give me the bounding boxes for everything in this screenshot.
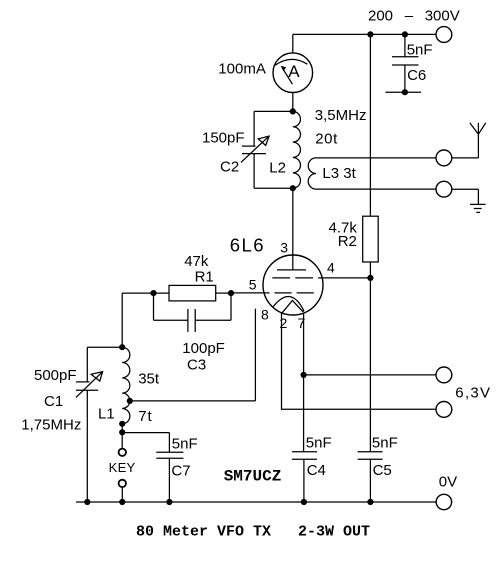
svg-text:C5: C5 [373, 462, 392, 479]
wire pin 8 [254, 309, 256, 401]
terminal 0V [436, 494, 451, 509]
tube 6L6 U1 [263, 255, 323, 315]
node L1 tap [127, 398, 133, 404]
wire R2 bottom [369, 262, 371, 452]
node L1 top [119, 344, 125, 350]
svg-text:A: A [288, 62, 300, 81]
wire L1 tap to pin 8 [130, 400, 256, 402]
svg-text:35t: 35t [138, 371, 160, 388]
resistor R1 [169, 285, 216, 301]
svg-text:7t: 7t [138, 408, 153, 425]
svg-text:6,3V: 6,3V [455, 385, 491, 402]
svg-text:R1: R1 [195, 269, 214, 286]
svg-text:5nF: 5nF [172, 435, 198, 452]
wire junction to C7 [122, 432, 169, 434]
inductor L3 [308, 158, 436, 189]
svg-text:C4: C4 [307, 462, 326, 479]
antenna [452, 123, 486, 158]
key terminal upper [119, 449, 126, 456]
wire C1 top to L1 top [87, 346, 122, 348]
wire pin 5 to R1 [231, 292, 270, 294]
wire pin 4 [318, 277, 370, 279]
svg-text:500pF: 500pF [34, 367, 77, 384]
wire L1 bottom to key junction [121, 424, 123, 449]
capacitor C3 [154, 293, 232, 332]
svg-text:100pF: 100pF [182, 340, 225, 357]
svg-text:C1: C1 [44, 393, 63, 410]
svg-text:5nF: 5nF [306, 435, 332, 452]
wire C2 bottom to L2 bottom [254, 187, 293, 189]
meter M 100mA [273, 34, 313, 111]
wire C2 branch lower [253, 154, 255, 189]
inductor L1 [122, 347, 130, 424]
node C7 junction [119, 429, 125, 435]
svg-text:200 – 300V: 200 – 300V [368, 8, 460, 25]
svg-text:5nF: 5nF [407, 42, 433, 59]
capacitor C5 [358, 452, 383, 502]
node pin7 6.3V [301, 372, 307, 378]
node supply-R2 [367, 31, 373, 37]
capacitor C6 [385, 34, 421, 95]
wire C2 branch upper [253, 111, 255, 146]
capacitor C1 variable 500pF [76, 347, 103, 502]
svg-text:3,5MHz: 3,5MHz [315, 107, 367, 124]
terminal 6.3V a [436, 367, 452, 383]
svg-text:80 Meter VFO TX 2-3W OUT: 80 Meter VFO TX 2-3W OUT [136, 524, 370, 541]
svg-text:7: 7 [298, 315, 306, 331]
svg-text:0V: 0V [439, 474, 457, 491]
svg-text:5nF: 5nF [372, 435, 398, 452]
terminal 6.3V b [436, 402, 452, 418]
wire 6.3V top [304, 374, 436, 376]
svg-text:SM7UCZ: SM7UCZ [224, 468, 282, 486]
wire pin 2 heater [282, 313, 437, 409]
svg-text:1,75MHz: 1,75MHz [21, 416, 81, 433]
node rail C1 [84, 499, 90, 505]
node supply-C6 [402, 31, 408, 37]
wire grid network down to L1 top [121, 293, 123, 347]
svg-text:L3 3t: L3 3t [322, 165, 356, 182]
svg-text:C3: C3 [187, 357, 206, 374]
wire L2 bottom to anode [292, 188, 294, 270]
terminal RF out bottom [436, 181, 452, 197]
svg-text:100mA: 100mA [218, 61, 266, 78]
svg-text:3: 3 [280, 240, 288, 256]
wire R1 right lead [216, 292, 231, 294]
svg-text:L1: L1 [98, 406, 115, 423]
svg-text:L2: L2 [269, 159, 286, 176]
wire key to ground rail [121, 487, 123, 502]
terminal HT supply [436, 27, 452, 43]
svg-text:2: 2 [280, 315, 288, 331]
svg-text:4: 4 [327, 260, 335, 276]
node R1 left C3 [150, 290, 156, 296]
svg-text:150pF: 150pF [202, 129, 245, 146]
ground [452, 189, 486, 212]
inductor L2 [293, 111, 301, 188]
svg-text:5: 5 [249, 276, 257, 292]
capacitor C2 variable 150pF [241, 136, 269, 162]
wire L2 top to C2 branch [254, 110, 293, 112]
node rail C4 [301, 499, 307, 505]
capacitor C7 [156, 433, 183, 502]
svg-text:6L6: 6L6 [230, 235, 265, 256]
svg-text:C2: C2 [220, 159, 239, 176]
svg-text:C7: C7 [171, 462, 190, 479]
node rail C5 [367, 499, 373, 505]
wire pin 7 heater [303, 313, 305, 452]
wire ground rail [76, 501, 436, 503]
svg-text:R2: R2 [338, 233, 357, 250]
svg-text:8: 8 [261, 307, 269, 323]
svg-text:C6: C6 [407, 67, 426, 84]
wire top supply rail [293, 33, 436, 35]
svg-text:KEY: KEY [109, 460, 136, 475]
wire R1 left lead [122, 292, 169, 294]
resistor R2 [363, 216, 379, 262]
capacitor C4 [292, 452, 317, 502]
node pin4-R2 [367, 275, 373, 281]
key terminal lower [119, 480, 126, 487]
terminal RF out top [436, 150, 452, 166]
node L2 top [290, 108, 296, 114]
node L1 bottom [119, 421, 125, 427]
node rail C7 [166, 499, 172, 505]
node rail KEY [119, 499, 125, 505]
wire supply to R2 [369, 34, 371, 216]
node R1 right [228, 290, 234, 296]
node L2 bottom [290, 185, 296, 191]
svg-text:20t: 20t [315, 131, 338, 148]
